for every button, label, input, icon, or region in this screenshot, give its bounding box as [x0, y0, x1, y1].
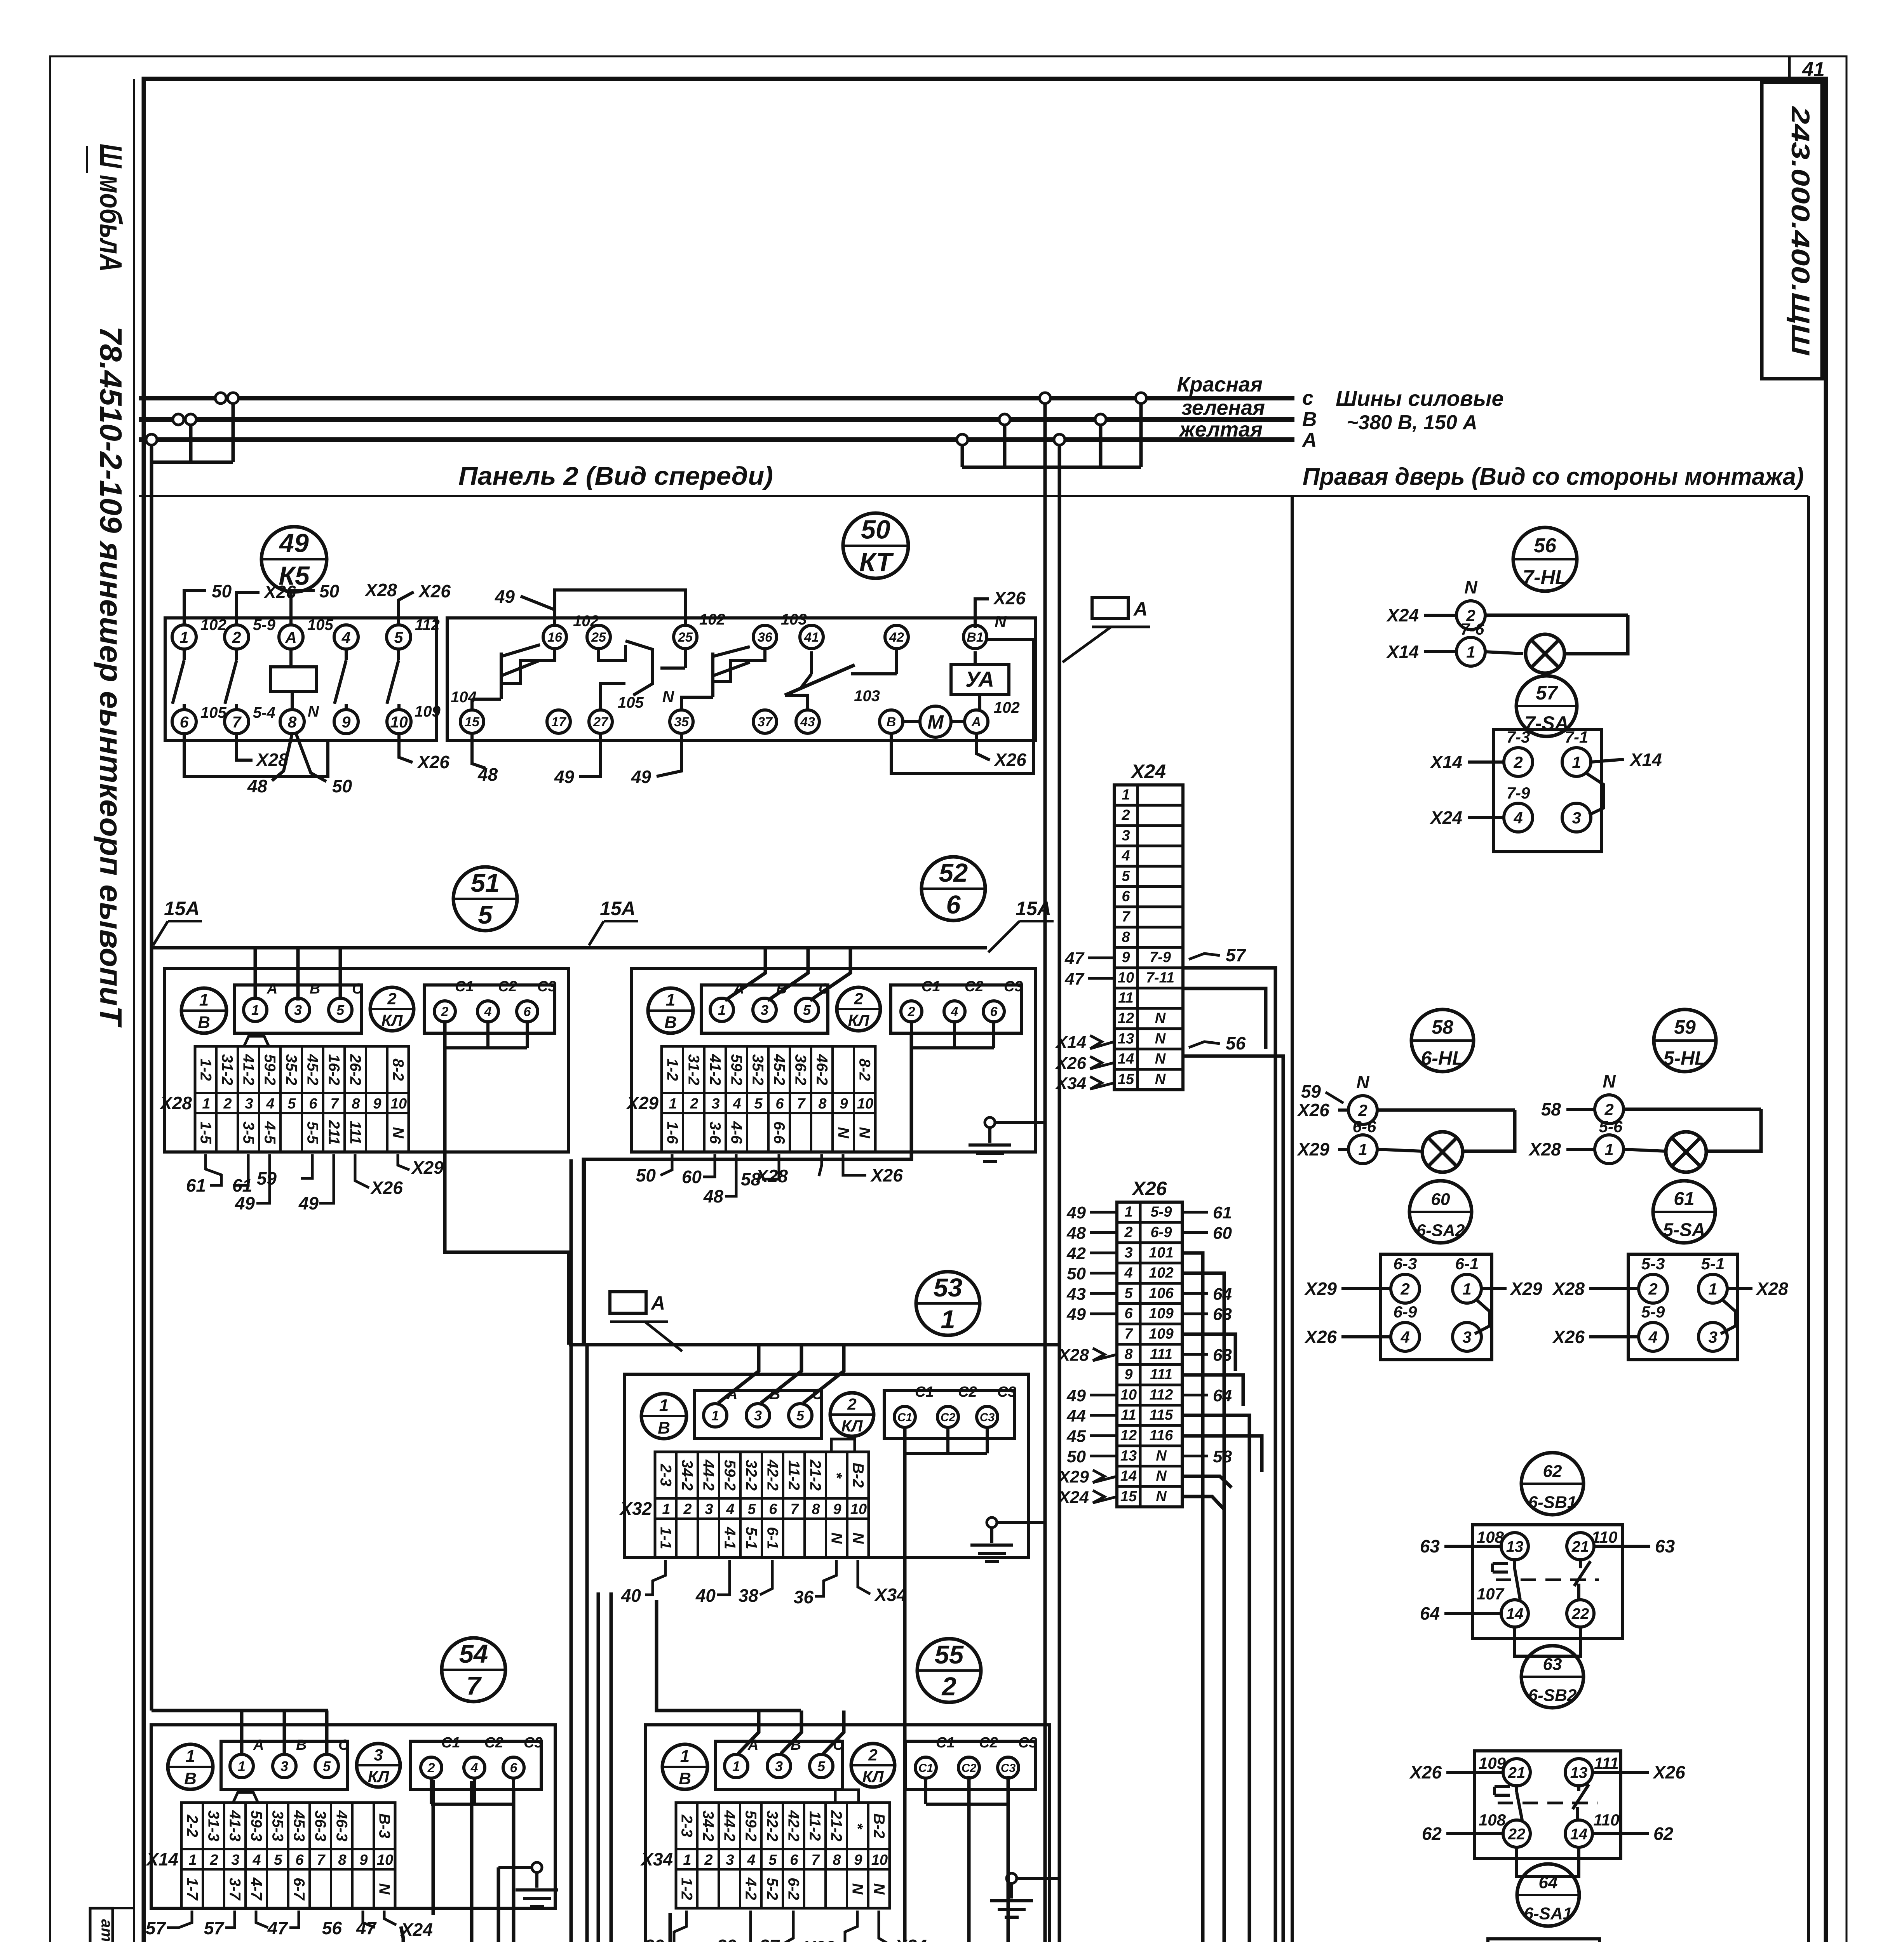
svg-text:42-2: 42-2 [764, 1459, 781, 1491]
svg-text:41-2: 41-2 [240, 1054, 257, 1085]
svg-text:С2: С2 [498, 978, 517, 995]
svg-text:2: 2 [1648, 1280, 1657, 1298]
svg-text:11: 11 [1118, 990, 1133, 1006]
svg-text:9: 9 [854, 1852, 862, 1868]
svg-text:59-2: 59-2 [261, 1054, 279, 1085]
svg-text:11: 11 [1121, 1407, 1136, 1423]
svg-text:5: 5 [478, 900, 493, 929]
svg-text:1: 1 [669, 1096, 677, 1112]
svg-text:3-5: 3-5 [240, 1121, 257, 1144]
svg-text:36-3: 36-3 [312, 1810, 329, 1841]
block50 bottom terminal 15 [460, 710, 484, 733]
svg-text:9: 9 [1124, 1366, 1132, 1383]
svg-text:4: 4 [1124, 1265, 1132, 1281]
svg-text:102: 102 [200, 616, 226, 633]
svg-text:X32: X32 [802, 1937, 835, 1942]
starter block 51 body [165, 969, 569, 1152]
svg-text:4-2: 4-2 [742, 1877, 760, 1900]
svg-text:63: 63 [1213, 1345, 1232, 1364]
svg-text:3: 3 [1572, 809, 1581, 827]
block53 table top bump [831, 1439, 855, 1452]
svg-text:5-9: 5-9 [1641, 1303, 1665, 1321]
block 51 terminal С3 [517, 978, 556, 1022]
svg-text:2: 2 [1400, 1280, 1409, 1298]
svg-text:15: 15 [465, 715, 480, 729]
svg-text:17: 17 [551, 715, 567, 729]
assembly mark A near 53 [610, 1292, 682, 1351]
X26 left leaders [1057, 1203, 1117, 1507]
svg-text:5-9: 5-9 [1151, 1204, 1172, 1220]
svg-text:44: 44 [1066, 1406, 1086, 1425]
svg-text:1: 1 [199, 990, 209, 1009]
svg-text:М: М [927, 711, 944, 733]
svg-text:X26: X26 [418, 581, 451, 601]
svg-text:5: 5 [768, 1852, 777, 1868]
X24 left leaders [1055, 949, 1114, 1093]
svg-text:53: 53 [934, 1273, 963, 1302]
block54 phase drops [242, 1711, 327, 1756]
block50 bottom pigtail 48 [472, 734, 498, 785]
relay K5 coil [270, 667, 317, 692]
svg-text:5: 5 [817, 1758, 826, 1774]
svg-text:9: 9 [833, 1501, 841, 1517]
svg-text:50: 50 [636, 1165, 656, 1185]
svg-text:4: 4 [726, 1501, 734, 1517]
svg-text:56: 56 [1226, 1033, 1246, 1053]
svg-text:КЛ: КЛ [368, 1768, 390, 1786]
block49 top label X28 [364, 580, 397, 600]
svg-text:3: 3 [294, 1002, 302, 1018]
svg-text:109: 109 [415, 703, 441, 720]
block49 bottom terminal 7 [225, 704, 275, 734]
svg-text:9: 9 [840, 1096, 848, 1112]
block49 bottom terminal 10 [387, 703, 441, 734]
block53 C1 wire down to H1-1 [868, 1427, 905, 1942]
svg-text:41-2: 41-2 [707, 1054, 724, 1085]
svg-text:1: 1 [732, 1758, 740, 1774]
svg-text:41: 41 [1802, 58, 1825, 81]
K5 contact [334, 649, 346, 710]
svg-text:8: 8 [352, 1096, 360, 1112]
relay K5 block 49 body [165, 618, 436, 741]
svg-text:2-3: 2-3 [678, 1814, 695, 1837]
svg-text:5-2: 5-2 [764, 1878, 781, 1900]
device circle 62/6-SB1 [1521, 1453, 1583, 1515]
svg-text:С1: С1 [897, 1411, 912, 1424]
block50 top pigtail X26 [975, 588, 1026, 628]
svg-text:5: 5 [803, 1002, 811, 1018]
block54 pigtail labels [146, 1918, 433, 1940]
svg-text:УА: УА [965, 667, 994, 691]
block50 bottom pigtail 49 b [631, 734, 681, 787]
svg-text:7: 7 [317, 1852, 326, 1868]
svg-text:32-2: 32-2 [764, 1810, 781, 1841]
svg-text:2: 2 [908, 1004, 915, 1019]
wire to H7-1 [401, 1926, 426, 1942]
X26 wire row3 to circle 7 [1124, 1253, 1203, 1942]
svg-text:109: 109 [1479, 1754, 1506, 1772]
svg-text:58: 58 [1541, 1099, 1561, 1119]
svg-text:49: 49 [235, 1193, 255, 1213]
block50 bottom pigtail 49 a [554, 734, 601, 787]
svg-text:2: 2 [232, 628, 241, 646]
svg-text:21-2: 21-2 [807, 1459, 824, 1491]
svg-text:102: 102 [994, 699, 1020, 716]
svg-text:7-9: 7-9 [1150, 949, 1171, 966]
svg-text:50: 50 [1067, 1264, 1086, 1283]
svg-text:10: 10 [1118, 969, 1134, 986]
svg-text:7-6: 7-6 [1461, 620, 1484, 638]
svg-text:6: 6 [790, 1852, 798, 1868]
block51 C1 wire down [445, 1022, 569, 1345]
svg-text:59: 59 [1301, 1081, 1321, 1102]
svg-text:4: 4 [1648, 1328, 1657, 1346]
svg-text:5-6: 5-6 [1599, 1117, 1623, 1136]
block 51 terminal С2 [477, 978, 517, 1022]
timer KT block 50 body [447, 618, 1036, 741]
svg-text:60: 60 [1213, 1223, 1232, 1242]
device circle 52/6 [922, 857, 985, 921]
svg-text:43: 43 [800, 715, 815, 729]
block 52 C terminal box [891, 985, 1021, 1033]
wire run to H6-1 [583, 1159, 586, 1345]
block50 UA wires [975, 651, 980, 710]
svg-text:10: 10 [850, 1501, 867, 1517]
svg-text:16: 16 [547, 630, 563, 645]
svg-text:6: 6 [510, 1761, 518, 1775]
svg-text:X26: X26 [416, 752, 449, 772]
svg-text:5: 5 [287, 1096, 296, 1112]
svg-text:*: * [849, 1823, 866, 1830]
svg-text:45-2: 45-2 [771, 1054, 788, 1085]
svg-text:25: 25 [591, 630, 606, 645]
svg-text:21: 21 [1508, 1764, 1526, 1781]
block50 bottom terminal В [880, 710, 903, 733]
svg-text:В: В [184, 1769, 197, 1788]
svg-text:2: 2 [1513, 753, 1523, 771]
svg-text:36-2: 36-2 [792, 1054, 809, 1085]
svg-text:X34: X34 [640, 1849, 673, 1869]
svg-text:50: 50 [212, 581, 232, 601]
svg-text:3: 3 [1124, 1244, 1132, 1261]
label 15A left [153, 898, 202, 945]
block55 C2 wire joins run [967, 1776, 971, 1942]
svg-text:3: 3 [1122, 827, 1130, 844]
svg-text:40: 40 [695, 1585, 716, 1606]
block49 top terminal 5 [387, 616, 440, 649]
svg-text:В-2: В-2 [871, 1813, 888, 1838]
starter block 52 body [631, 969, 1035, 1152]
svg-text:36: 36 [794, 1587, 814, 1607]
svg-text:X26: X26 [870, 1165, 903, 1185]
terminal strip X26 [1117, 1202, 1182, 1507]
svg-text:60: 60 [682, 1167, 702, 1187]
svg-text:6: 6 [295, 1852, 304, 1868]
svg-text:16-2: 16-2 [326, 1054, 343, 1085]
svg-text:1: 1 [666, 990, 675, 1009]
svg-text:5: 5 [323, 1758, 331, 1774]
svg-text:8-2: 8-2 [856, 1058, 873, 1081]
svg-text:51: 51 [471, 868, 500, 898]
switch block 6-SA1 [1411, 1939, 1650, 1942]
svg-text:N: N [1156, 1468, 1167, 1484]
block50 bottom terminal 35 [670, 710, 693, 733]
svg-text:1: 1 [1466, 643, 1475, 661]
block51 pigtails [206, 1154, 409, 1203]
button block 6-SB1 [1420, 1525, 1675, 1656]
block 52 terminal С3 [983, 978, 1023, 1022]
svg-text:3: 3 [754, 1408, 762, 1423]
block50 top terminal 25 [674, 625, 697, 649]
svg-text:108: 108 [1477, 1528, 1504, 1546]
svg-text:11-2: 11-2 [807, 1811, 824, 1841]
svg-text:27: 27 [593, 715, 609, 729]
block49 top pigtail 50 (A) [291, 581, 340, 625]
X24 right wire 7-11 loop [1183, 988, 1266, 1049]
svg-text:4-7: 4-7 [248, 1877, 265, 1901]
svg-text:111: 111 [347, 1121, 364, 1145]
svg-text:3: 3 [775, 1758, 783, 1774]
terminal table X29 [662, 1046, 875, 1152]
svg-text:X26: X26 [370, 1178, 403, 1198]
svg-text:1: 1 [1358, 1140, 1367, 1159]
svg-text:63: 63 [1420, 1536, 1440, 1556]
block 54 terminal 5 phase С [315, 1737, 349, 1778]
svg-text:X28: X28 [755, 1166, 788, 1186]
K5 contact [225, 649, 237, 710]
svg-text:2: 2 [209, 1852, 218, 1868]
svg-text:N: N [1155, 1051, 1166, 1067]
svg-text:109: 109 [1149, 1305, 1173, 1322]
svg-text:*: * [828, 1472, 845, 1479]
svg-text:5: 5 [754, 1096, 763, 1112]
svg-text:3: 3 [245, 1096, 253, 1112]
svg-text:6-SА1: 6-SА1 [1524, 1904, 1573, 1923]
svg-text:42: 42 [889, 630, 904, 645]
block49 bottom loop 6-8 [184, 734, 328, 776]
block50 thermal element 2 [599, 641, 685, 710]
K5 contact [172, 649, 184, 710]
svg-text:X14: X14 [1386, 642, 1419, 662]
svg-text:5: 5 [747, 1501, 756, 1517]
svg-text:X26: X26 [1409, 1762, 1442, 1782]
svg-text:X28: X28 [1057, 1345, 1089, 1364]
svg-text:С3: С3 [537, 978, 556, 995]
svg-text:49: 49 [1066, 1203, 1086, 1222]
svg-text:34-2: 34-2 [700, 1810, 717, 1841]
svg-text:102: 102 [1149, 1265, 1173, 1281]
svg-text:зеленая: зеленая [1181, 396, 1265, 419]
svg-text:С1: С1 [915, 1384, 934, 1400]
svg-text:6: 6 [990, 1004, 998, 1019]
svg-text:57: 57 [1226, 945, 1247, 965]
starter block 55 body [646, 1725, 1050, 1942]
svg-text:С: С [352, 981, 363, 997]
block 54 C terminal box [411, 1741, 541, 1789]
svg-text:108: 108 [1479, 1811, 1506, 1829]
svg-text:6: 6 [769, 1501, 777, 1517]
svg-text:1: 1 [238, 1758, 246, 1774]
svg-text:49: 49 [631, 767, 652, 787]
svg-text:5-3: 5-3 [1641, 1255, 1665, 1273]
svg-text:С3: С3 [980, 1411, 995, 1424]
block 51 circle 1/В [181, 988, 226, 1033]
svg-text:X26: X26 [993, 750, 1026, 770]
svg-text:59-3: 59-3 [248, 1810, 265, 1841]
block49 top pigtail X26 (5) [399, 581, 451, 625]
svg-text:4: 4 [732, 1096, 741, 1112]
svg-text:10: 10 [377, 1852, 393, 1868]
svg-text:С3: С3 [997, 1384, 1016, 1400]
block 55 terminal 5 phase С [810, 1737, 844, 1778]
svg-text:N: N [828, 1533, 845, 1544]
block50 N loop right [891, 640, 1033, 774]
svg-text:9: 9 [373, 1096, 381, 1112]
svg-text:4: 4 [747, 1852, 755, 1868]
block 54 C2-C3 jumper [431, 1778, 514, 1804]
svg-text:1-1: 1-1 [657, 1527, 674, 1549]
svg-text:X24: X24 [1429, 807, 1462, 828]
block 53 ABC terminal box [695, 1390, 821, 1439]
svg-text:35-3: 35-3 [269, 1810, 286, 1841]
svg-text:7: 7 [811, 1852, 820, 1868]
svg-text:2: 2 [387, 990, 396, 1008]
svg-text:X26: X26 [1055, 1054, 1087, 1073]
svg-text:Панель 2 (Вид спереди): Панель 2 (Вид спереди) [458, 461, 773, 490]
svg-text:С1: С1 [918, 1762, 933, 1775]
svg-text:1-6: 1-6 [664, 1121, 681, 1144]
block 55 ABC terminal box [716, 1741, 842, 1789]
door area right edge [1807, 496, 1810, 1942]
svg-text:6: 6 [775, 1096, 784, 1112]
svg-text:2: 2 [683, 1501, 692, 1517]
wire C2-54 to H7-5 [472, 1781, 500, 1942]
svg-text:Красная: Красная [1177, 373, 1263, 396]
svg-text:57: 57 [204, 1918, 225, 1938]
svg-text:2: 2 [847, 1395, 856, 1413]
power bus A (желтая) [139, 437, 1294, 442]
svg-text:64: 64 [1420, 1603, 1440, 1624]
label 15A right [988, 898, 1054, 952]
block 53 terminal 1 phase А [704, 1386, 737, 1427]
svg-text:40: 40 [621, 1585, 641, 1606]
svg-text:101: 101 [1149, 1244, 1173, 1261]
block51 feed line 15A [152, 946, 987, 950]
wire run join H1-1 [611, 1592, 868, 1942]
block 53 circle 2/КЛ [830, 1393, 874, 1436]
block 53 C terminal box [884, 1390, 1015, 1439]
svg-text:1: 1 [1122, 787, 1130, 803]
svg-text:41-3: 41-3 [226, 1810, 244, 1841]
block 51 terminal 3 phase В [286, 981, 320, 1021]
svg-text:X29: X29 [1509, 1279, 1542, 1299]
svg-text:15А: 15А [600, 898, 636, 919]
block50 motor M [920, 706, 951, 737]
svg-text:1: 1 [711, 1408, 719, 1423]
svg-text:107: 107 [1499, 1939, 1527, 1942]
device circle 54/7 [442, 1638, 505, 1702]
block 52 terminal С1 [901, 978, 941, 1022]
X24 right wire 56 [1183, 1033, 1405, 1942]
svg-text:61: 61 [186, 1175, 206, 1195]
lamp 5-HL circuit [1528, 1071, 1761, 1164]
svg-text:46-2: 46-2 [814, 1054, 831, 1085]
svg-text:50: 50 [861, 515, 890, 545]
svg-text:5: 5 [1124, 1285, 1133, 1302]
svg-text:102: 102 [699, 611, 725, 628]
svg-text:103: 103 [781, 611, 807, 628]
svg-text:N: N [1464, 577, 1477, 597]
svg-text:111: 111 [1594, 1754, 1619, 1772]
svg-text:64: 64 [1213, 1386, 1232, 1405]
svg-text:X26: X26 [993, 588, 1026, 608]
svg-text:С3: С3 [1018, 1735, 1037, 1751]
device circle 59/5-HL [1654, 1009, 1716, 1072]
block50 bottom terminal А [965, 710, 988, 733]
block53 pigtails [645, 1560, 870, 1596]
svg-text:35: 35 [674, 715, 689, 729]
svg-text:59: 59 [1674, 1016, 1696, 1038]
svg-text:1-7: 1-7 [184, 1878, 201, 1901]
block 51 terminal С1 [434, 978, 474, 1022]
svg-text:Ш мобьлА: Ш мобьлА [94, 144, 128, 272]
svg-text:X28: X28 [1755, 1279, 1788, 1299]
svg-text:4: 4 [341, 628, 351, 646]
svg-text:4: 4 [1121, 848, 1130, 864]
svg-text:7-НL: 7-НL [1523, 566, 1568, 589]
svg-text:34-2: 34-2 [679, 1460, 696, 1491]
X26 right stub labels [1182, 1203, 1232, 1466]
svg-text:С2: С2 [941, 1411, 956, 1424]
X26 wire row11 to K6-2 [1182, 1415, 1249, 1942]
svg-text:1: 1 [662, 1501, 670, 1517]
svg-text:N: N [850, 1533, 867, 1544]
left margin rotated title: Альбом III [87, 144, 128, 272]
svg-text:55: 55 [935, 1640, 964, 1669]
svg-text:2-3: 2-3 [657, 1463, 674, 1486]
panel area top line [139, 495, 1808, 497]
block50 bottom terminal 37 [753, 710, 777, 733]
block 52 circle 1/В [648, 988, 693, 1033]
svg-text:12: 12 [1118, 1010, 1134, 1027]
svg-text:10: 10 [871, 1852, 888, 1868]
device circle 50/KT [843, 513, 908, 578]
svg-text:N: N [835, 1127, 852, 1139]
block49 bottom pigtail 48 [247, 734, 292, 796]
block54 pigtails [167, 1911, 396, 1928]
svg-text:1: 1 [1572, 753, 1581, 771]
svg-text:7: 7 [1124, 1326, 1133, 1342]
block 54 terminal С3 [503, 1735, 543, 1778]
svg-text:С1: С1 [441, 1735, 460, 1751]
block49 bottom terminal 9 [334, 710, 358, 734]
svg-text:243.000.400.ЩШ: 243.000.400.ЩШ [1786, 106, 1815, 356]
long neutral drop wire 1 [1043, 467, 1047, 1942]
svg-text:В: В [198, 1013, 210, 1032]
svg-text:А: А [650, 1292, 665, 1314]
svg-text:1: 1 [1124, 1204, 1132, 1220]
block 51 C terminal box [424, 985, 555, 1033]
svg-text:49: 49 [554, 767, 575, 787]
svg-text:14: 14 [1506, 1605, 1524, 1622]
svg-text:3: 3 [705, 1501, 713, 1517]
svg-text:N: N [1156, 1488, 1167, 1505]
svg-text:11-2: 11-2 [786, 1460, 803, 1490]
svg-text:35-2: 35-2 [749, 1054, 766, 1085]
svg-text:X14: X14 [1055, 1033, 1086, 1052]
block 55 terminal С2 [958, 1735, 998, 1778]
X26 wire row4 to circle 6 [1182, 1273, 1224, 1942]
